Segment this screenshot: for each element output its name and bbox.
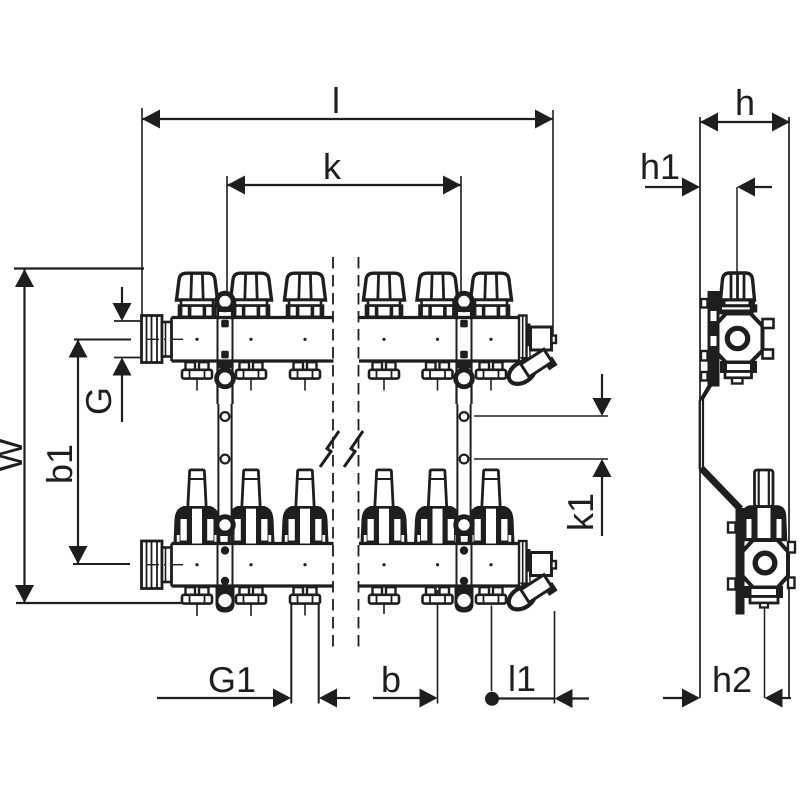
drain valve bottom manifold (505, 549, 558, 617)
bottom outlet 3 (290, 587, 320, 615)
flow meter 5 (416, 470, 460, 544)
dimension G (78, 287, 152, 422)
bottom outlet 5 (423, 587, 453, 603)
side view hex body top (715, 314, 763, 363)
top outlet 1 (182, 362, 212, 390)
valve cap 5 (417, 273, 458, 317)
adapter top-left (162, 322, 172, 357)
side view bracket diagonal (700, 382, 745, 615)
bottom manifold body left half (172, 544, 334, 587)
side view right tabs bottom (788, 542, 795, 588)
top manifold body left half (172, 318, 334, 362)
svg-text:b: b (381, 659, 401, 700)
valve cap 2 (231, 273, 272, 317)
end cap bottom manifold (519, 541, 527, 589)
svg-text:h: h (735, 82, 755, 123)
bottom outlet 4 (369, 587, 399, 614)
dimension b1 (39, 340, 131, 565)
dimension h2 (663, 607, 791, 708)
end cap top manifold (519, 316, 527, 364)
center line top body (146, 338, 493, 341)
mounting bracket right (455, 293, 474, 612)
center line bottom body (146, 563, 493, 566)
dimension l (142, 80, 553, 334)
break mark 1 (320, 431, 339, 467)
bottom manifold body right half (359, 544, 519, 587)
dimension G1 (157, 604, 350, 708)
dimension k1 (474, 374, 612, 536)
mounting bracket left (216, 293, 235, 612)
svg-text:G1: G1 (208, 659, 256, 700)
union nut top-left (142, 316, 163, 363)
valve cap 1 (177, 273, 218, 317)
top outlet 2 (236, 362, 266, 390)
dimension W (0, 269, 210, 604)
valve cap 4 (364, 273, 405, 317)
side view left tabs bottom (728, 523, 736, 590)
svg-text:l: l (332, 80, 340, 121)
top outlet 4 (369, 362, 399, 390)
break mark 2 (344, 431, 363, 467)
dimension h (700, 82, 790, 698)
svg-text:k: k (323, 146, 342, 187)
side view hex body bottom (743, 540, 789, 588)
bottom outlet 2 (236, 587, 266, 616)
side view flow meter bell (742, 507, 786, 541)
svg-text:k1: k1 (560, 493, 601, 531)
dimension h1 (640, 146, 772, 331)
side view lower bands top assembly (722, 363, 756, 384)
flow meter 1 (175, 470, 219, 544)
break dashed line 2 (358, 257, 360, 648)
dimension k (227, 146, 461, 293)
svg-text:h1: h1 (640, 146, 680, 187)
dimension b (373, 590, 438, 708)
valve cap 6 (471, 273, 512, 317)
break dashed line 1 (332, 257, 334, 648)
side view lower bands bottom assembly (746, 588, 782, 608)
flow meter 3 (283, 470, 327, 544)
union nut bottom-left (142, 541, 163, 589)
svg-text:G: G (78, 387, 119, 415)
bottom outlet 6 (476, 587, 506, 603)
dimension l1 (485, 606, 589, 709)
bottom outlet 1 (182, 587, 212, 616)
svg-text:l1: l1 (508, 658, 536, 699)
side view cap collar (716, 300, 756, 314)
top manifold body right half (359, 318, 519, 362)
flow meter 6 (469, 470, 513, 544)
drain valve top manifold (505, 324, 558, 392)
svg-text:h2: h2 (712, 659, 752, 700)
svg-text:b1: b1 (39, 444, 80, 484)
top outlet 3 (290, 362, 320, 390)
valve cap 3 (285, 273, 326, 317)
side view right tabs top (763, 319, 774, 359)
side view mounting plate top (701, 291, 720, 387)
side view flow meter tube (755, 470, 774, 507)
flow meter 4 (362, 470, 406, 544)
top outlet 6 (476, 362, 506, 390)
side view valve cap dome (721, 273, 755, 300)
adapter bottom-left (162, 548, 172, 583)
top outlet 5 (423, 362, 453, 390)
flow meter 2 (229, 470, 273, 544)
